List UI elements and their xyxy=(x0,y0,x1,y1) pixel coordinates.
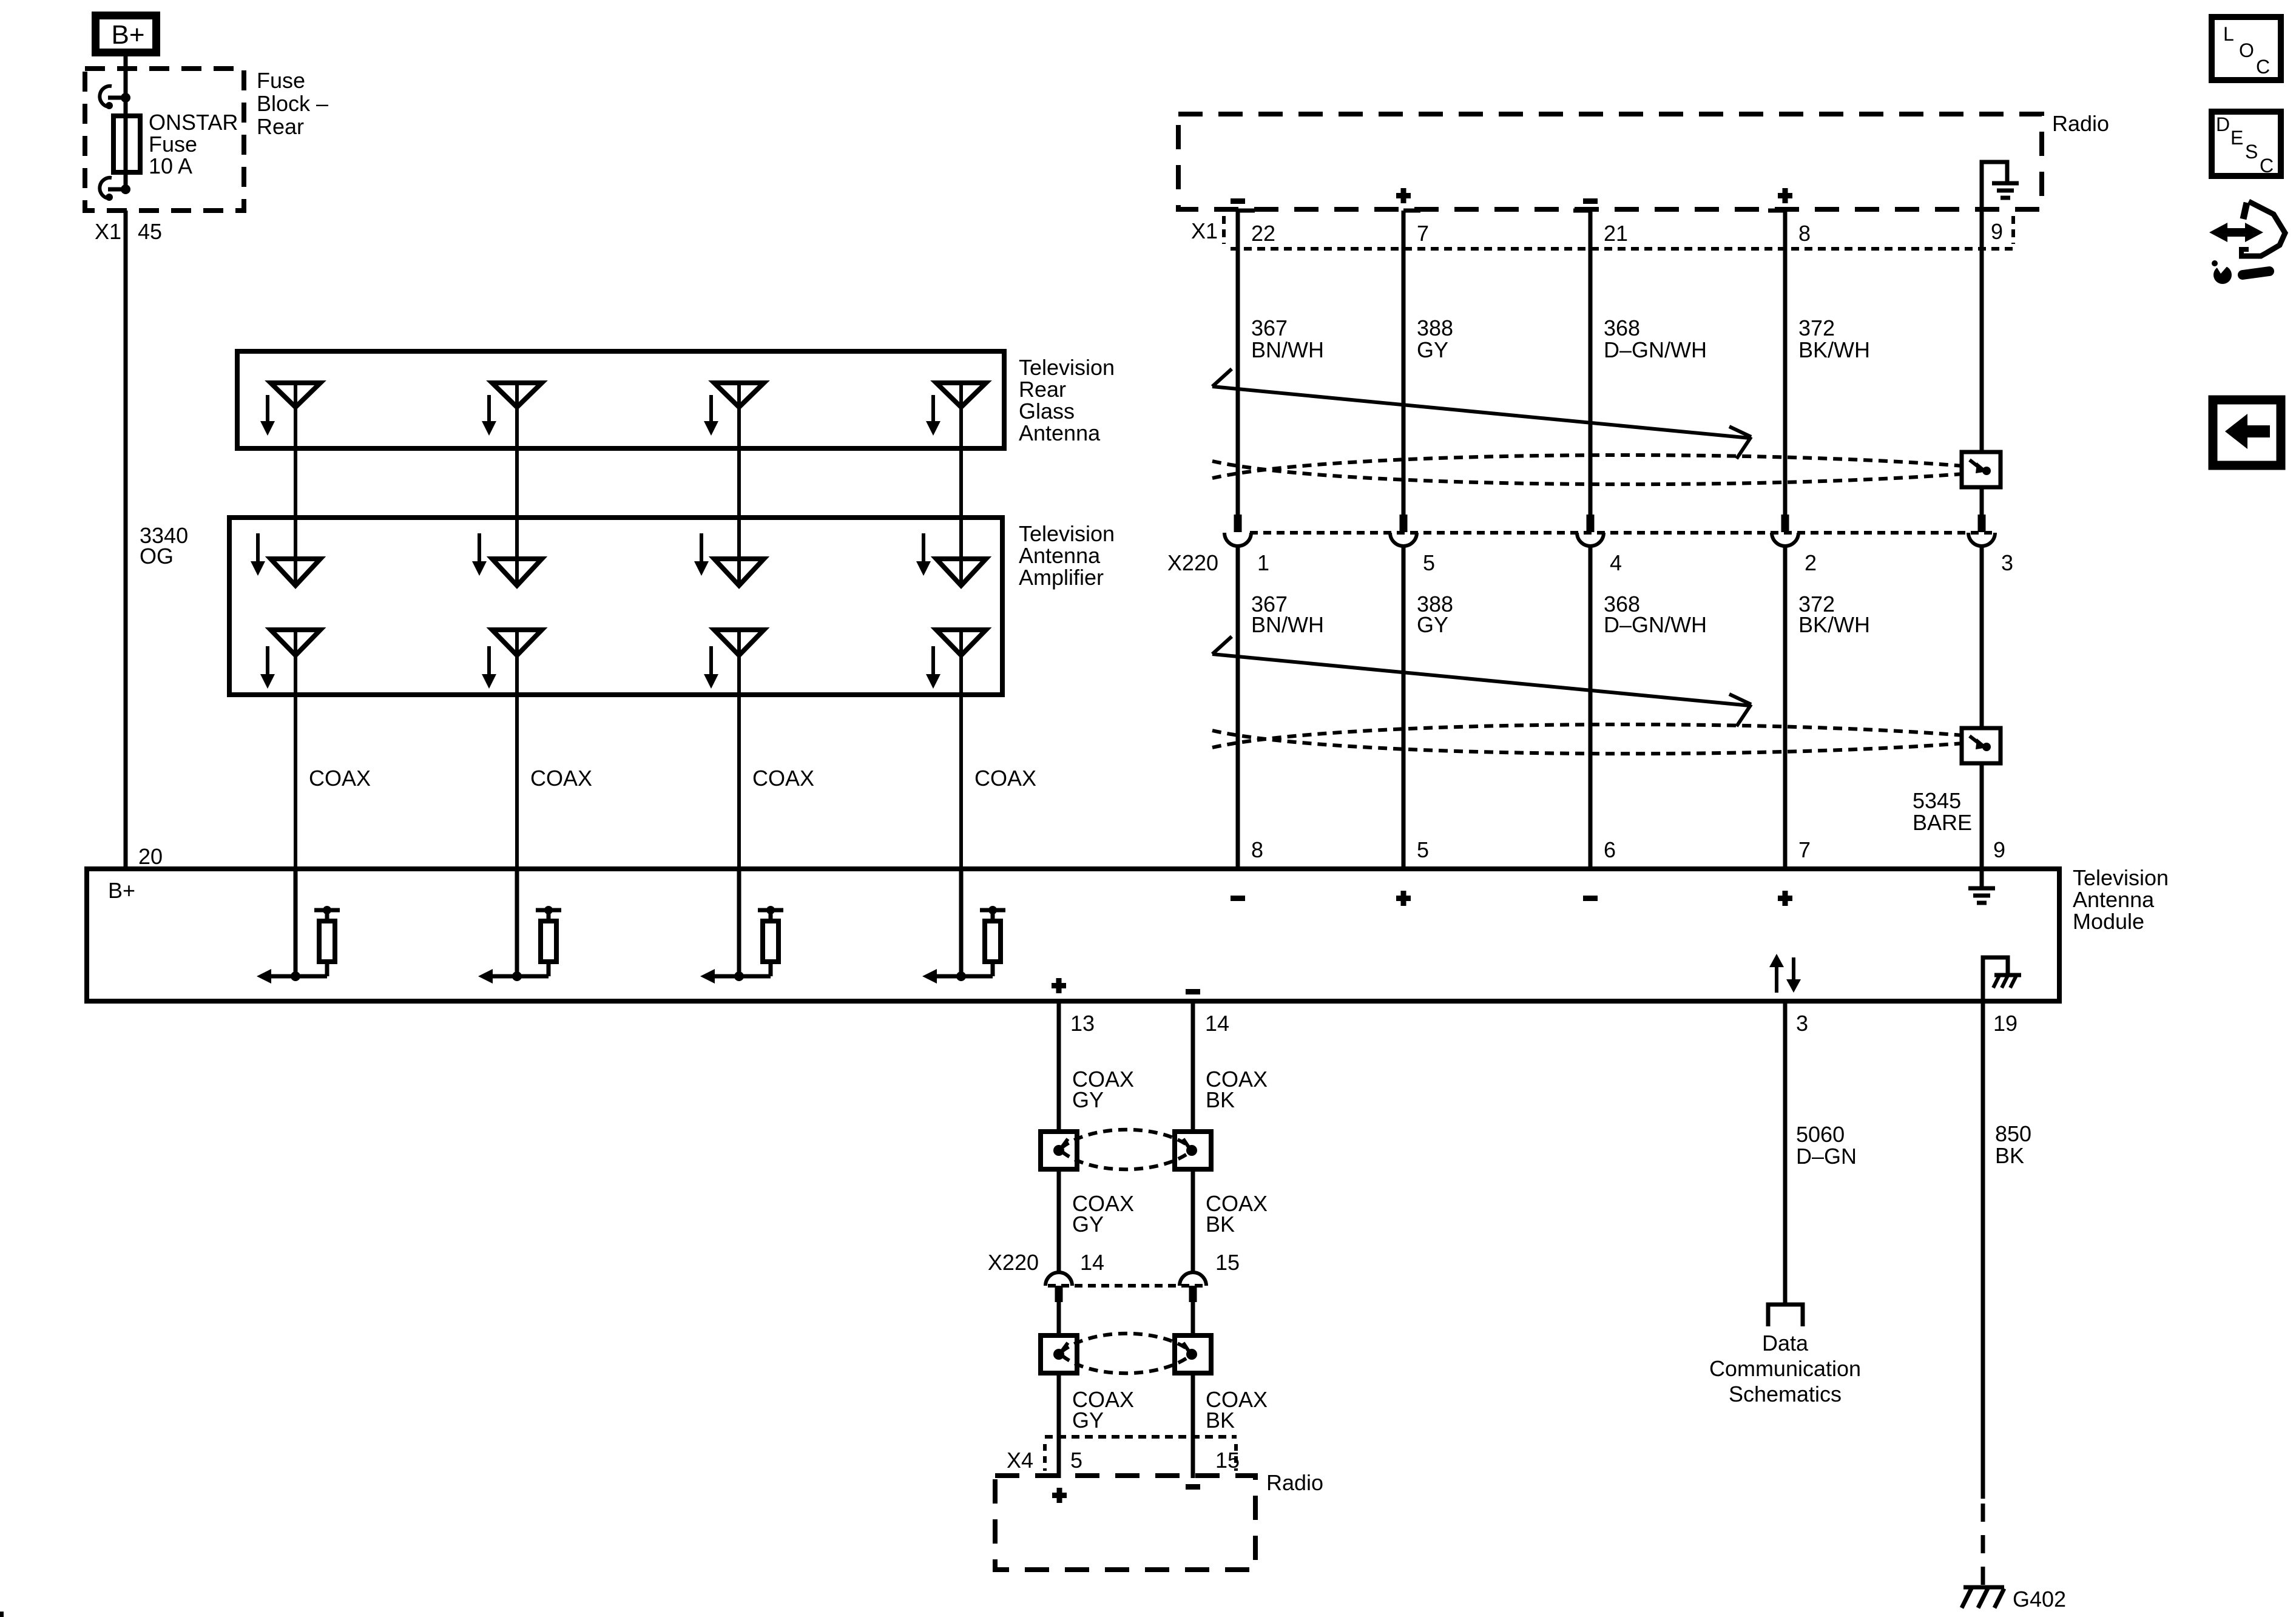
svg-text:6: 6 xyxy=(1604,837,1616,862)
wire circuit 372 BK/WH (X220 to module) xyxy=(1783,546,1788,869)
svg-text:Radio: Radio xyxy=(1266,1470,1323,1495)
wire circuit 368 D-GN/WH (X220 to module) xyxy=(1589,546,1593,869)
wire 3340 OG to module pin 20 xyxy=(124,211,128,869)
wire 5345 BARE drain (radio to X220) xyxy=(1980,209,1984,515)
television antenna amplifier box xyxy=(229,518,1002,695)
svg-text:OG: OG xyxy=(140,544,174,569)
svg-text:14: 14 xyxy=(1080,1250,1104,1275)
label ONSTAR Fuse 10 A xyxy=(149,110,238,178)
svg-text:368: 368 xyxy=(1604,316,1640,340)
label COAX GY (first) xyxy=(1072,1067,1134,1112)
svg-text:Fuse: Fuse xyxy=(257,68,305,93)
label Television Rear Glass Antenna xyxy=(1019,355,1115,445)
label Data Communication Schematics xyxy=(1709,1331,1861,1406)
wire COAX GY (module pin 13 to shield connector) xyxy=(1057,1001,1061,1272)
svg-text:3: 3 xyxy=(1796,1011,1808,1036)
svg-text:BK: BK xyxy=(1206,1408,1235,1433)
svg-text:5: 5 xyxy=(1423,550,1435,575)
bidirectional data arrows at module pin 3 xyxy=(1769,954,1801,993)
svg-text:15: 15 xyxy=(1215,1448,1240,1473)
svg-text:9: 9 xyxy=(1991,219,2003,244)
twisted pair ellipse lower (shield) xyxy=(1212,724,1978,754)
svg-text:Glass: Glass xyxy=(1019,399,1075,424)
antenna element A2 (rear glass) xyxy=(482,383,542,586)
svg-text:Communication: Communication xyxy=(1709,1356,1861,1381)
minus sign at radio pin 15 xyxy=(1186,1484,1200,1490)
svg-text:BN/WH: BN/WH xyxy=(1251,337,1324,362)
polarity sign minus at module pin 8 xyxy=(1231,896,1245,901)
label 3340 OG xyxy=(140,523,188,569)
radio pin 8 stub xyxy=(1768,209,1785,213)
fuse clip top xyxy=(100,86,130,109)
svg-text:X220: X220 xyxy=(1167,550,1218,575)
shield termination box upper xyxy=(1962,452,2001,487)
polarity sign plus at module pin 5 xyxy=(1396,891,1411,906)
svg-text:10 A: 10 A xyxy=(149,154,192,178)
svg-text:GY: GY xyxy=(1072,1212,1104,1237)
wire circuit 368 D-GN/WH (radio to X220) xyxy=(1589,211,1593,515)
shield link ellipse upper xyxy=(1053,1130,1197,1170)
svg-text:13: 13 xyxy=(1070,1011,1095,1036)
radio dashed box xyxy=(1178,114,2042,209)
svg-text:GY: GY xyxy=(1072,1087,1104,1112)
connector label X1 pin 45 xyxy=(95,219,162,244)
connector X220 lower dashed line xyxy=(1048,1284,1207,1288)
svg-text:2: 2 xyxy=(1805,550,1817,575)
svg-text:L: L xyxy=(2223,23,2234,45)
label COAX GY (second) xyxy=(1072,1191,1134,1237)
svg-text:B+: B+ xyxy=(108,878,135,903)
antenna element A1 (rear glass) xyxy=(260,383,320,586)
svg-text:15: 15 xyxy=(1215,1250,1240,1275)
fuse block rear dashed box xyxy=(85,69,244,211)
connector X220 terminal pin 14 xyxy=(1045,1272,1072,1302)
off-page connector to data communication schematics xyxy=(1768,1305,1803,1326)
wire label 5060 D-GN xyxy=(1796,1122,1857,1169)
chassis ground G402 xyxy=(1962,1587,2004,1608)
svg-text:COAX: COAX xyxy=(309,766,371,791)
radio pin 21 stub xyxy=(1573,209,1590,213)
wire COAX BK (X4 to radio) xyxy=(1191,1437,1195,1478)
shield splice box right lower xyxy=(1175,1335,1211,1373)
svg-text:COAX: COAX xyxy=(530,766,592,791)
svg-text:COAX: COAX xyxy=(752,766,814,791)
polarity sign plus at radio pin 7 xyxy=(1396,188,1411,203)
svg-text:Antenna: Antenna xyxy=(2073,887,2155,912)
label Television Antenna Module xyxy=(2073,865,2169,934)
svg-text:O: O xyxy=(2239,39,2254,61)
shield termination box lower xyxy=(1962,728,2001,763)
svg-text:5345: 5345 xyxy=(1913,788,1961,813)
svg-text:4: 4 xyxy=(1610,550,1622,575)
svg-text:X220: X220 xyxy=(988,1250,1039,1275)
icon LOC box xyxy=(2212,17,2281,80)
svg-text:5: 5 xyxy=(1417,837,1429,862)
shield splice box left upper xyxy=(1041,1132,1077,1169)
wire label 367 BN/WH lower xyxy=(1251,592,1324,637)
shield splice box right upper xyxy=(1175,1132,1211,1169)
wire circuit 372 BK/WH (radio to X220) xyxy=(1783,211,1788,515)
wire label 5345 BARE xyxy=(1913,788,1972,835)
svg-text:Fuse: Fuse xyxy=(149,132,197,157)
wire circuit 367 BN/WH (X220 to module) xyxy=(1236,546,1240,869)
wire 5345 BARE drain (X220 to module) xyxy=(1980,546,1984,869)
amplifier output antenna symbol C3 xyxy=(704,630,764,869)
svg-text:E: E xyxy=(2230,127,2243,149)
svg-text:9: 9 xyxy=(1993,837,2005,862)
icon back arrow box xyxy=(2213,400,2281,465)
svg-text:19: 19 xyxy=(1993,1011,2017,1036)
polarity sign minus at module pin 6 xyxy=(1583,896,1598,901)
wire label 388 GY lower xyxy=(1417,592,1453,637)
svg-text:BARE: BARE xyxy=(1913,810,1972,835)
svg-text:850: 850 xyxy=(1995,1121,2031,1146)
connector X220 terminal pin 5 xyxy=(1390,515,1417,546)
svg-text:Television: Television xyxy=(1019,521,1115,546)
svg-text:C: C xyxy=(2256,56,2270,78)
svg-text:Rear: Rear xyxy=(257,114,304,139)
wire B+ to fuse block xyxy=(124,56,128,98)
module input termination network 2 (arrow and resistor) xyxy=(478,869,561,984)
label X1 (radio connector) xyxy=(1191,216,2013,244)
antenna element A3 (rear glass) xyxy=(704,383,764,586)
amplifier input antenna symbol B4 xyxy=(916,533,986,586)
twisted pair ellipse upper (shield) xyxy=(1212,455,1978,484)
svg-text:D–GN/WH: D–GN/WH xyxy=(1604,612,1707,637)
svg-text:D: D xyxy=(2216,113,2230,135)
svg-text:BK/WH: BK/WH xyxy=(1798,612,1870,637)
icon DESC box xyxy=(2212,112,2281,177)
svg-text:B+: B+ xyxy=(111,20,144,50)
svg-text:GY: GY xyxy=(1417,612,1448,637)
fuse ONSTAR 10A element xyxy=(113,116,140,172)
label COAX BK (first) xyxy=(1206,1067,1268,1112)
connector X220 terminal pin 15 xyxy=(1180,1272,1206,1302)
svg-text:BK: BK xyxy=(1206,1212,1235,1237)
amplifier output antenna symbol C2 xyxy=(482,630,542,869)
svg-text:Television: Television xyxy=(1019,355,1115,380)
module internal chassis ground at pin 19 xyxy=(1983,957,2021,1001)
television antenna module box xyxy=(87,869,2059,1001)
wire label 368 D-GN/WH lower xyxy=(1604,592,1707,637)
television rear glass antenna box xyxy=(237,351,1004,448)
svg-text:45: 45 xyxy=(138,219,162,244)
connector X220 dashed line xyxy=(1250,531,1996,535)
label Fuse Block - Rear xyxy=(257,68,328,139)
radio pin 22 stub xyxy=(1238,209,1255,213)
svg-text:388: 388 xyxy=(1417,316,1453,340)
radio internal ground at pin 9 xyxy=(1982,162,2019,209)
svg-text:8: 8 xyxy=(1251,837,1263,862)
svg-text:Module: Module xyxy=(2073,909,2144,934)
module input termination network 1 (arrow and resistor) xyxy=(257,869,340,984)
svg-text:367: 367 xyxy=(1251,316,1288,340)
wire COAX BK (module pin 14 to shield connector) xyxy=(1191,1001,1195,1272)
wire label 850 BK xyxy=(1995,1121,2031,1168)
svg-text:Radio: Radio xyxy=(2052,111,2109,136)
fuse clip bottom xyxy=(100,178,130,201)
amplifier input antenna symbol B2 xyxy=(472,533,542,586)
svg-text:5060: 5060 xyxy=(1796,1122,1845,1147)
icon two-way communication with wrench xyxy=(2209,201,2285,284)
wire label 388 GY upper xyxy=(1417,316,1453,362)
polarity sign minus at radio pin 21 xyxy=(1583,198,1598,204)
svg-text:Antenna: Antenna xyxy=(1019,420,1101,445)
twisted-wire arrow lower xyxy=(1212,636,1751,726)
svg-text:ONSTAR: ONSTAR xyxy=(149,110,238,135)
svg-text:Data: Data xyxy=(1762,1331,1809,1355)
label COAX GY (third) xyxy=(1072,1387,1134,1433)
radio pin 7 stub xyxy=(1403,209,1420,213)
svg-text:Television: Television xyxy=(2073,865,2169,890)
connector X4 dashed line xyxy=(1045,1437,1237,1471)
polarity sign plus at radio pin 8 xyxy=(1778,188,1792,203)
svg-text:22: 22 xyxy=(1251,221,1275,246)
svg-text:20: 20 xyxy=(138,844,163,869)
shield link ellipse lower xyxy=(1053,1334,1197,1374)
label COAX BK (second) xyxy=(1206,1191,1268,1237)
wire label 367 BN/WH upper xyxy=(1251,316,1324,362)
label COAX BK (third) xyxy=(1206,1387,1268,1433)
svg-text:BK/WH: BK/WH xyxy=(1798,337,1870,362)
svg-text:Schematics: Schematics xyxy=(1729,1382,1842,1406)
module internal ground at pin 9 xyxy=(1968,869,1995,903)
wire label 368 D-GN/WH upper xyxy=(1604,316,1707,362)
label Television Antenna Amplifier xyxy=(1019,521,1115,590)
wire label 372 BK/WH lower xyxy=(1798,592,1870,637)
connector X220 terminal pin 4 xyxy=(1577,515,1604,546)
page mark xyxy=(0,1612,4,1617)
svg-text:BK: BK xyxy=(1206,1087,1235,1112)
svg-text:GY: GY xyxy=(1417,337,1448,362)
amplifier output antenna symbol C1 xyxy=(260,630,320,869)
svg-text:D–GN: D–GN xyxy=(1796,1144,1857,1169)
svg-text:D–GN/WH: D–GN/WH xyxy=(1604,337,1707,362)
plus sign at radio pin 5 xyxy=(1052,1488,1067,1503)
wire COAX GY (X4 to radio) xyxy=(1057,1437,1061,1478)
minus sign at module pin 14 xyxy=(1186,989,1200,994)
amplifier output antenna symbol C4 xyxy=(926,630,986,869)
svg-text:S: S xyxy=(2245,141,2258,163)
svg-text:Block –: Block – xyxy=(257,91,328,116)
power symbol B+ xyxy=(96,16,157,53)
svg-text:G402: G402 xyxy=(2013,1587,2066,1612)
connector X220 terminal pin 2 xyxy=(1772,515,1798,546)
antenna element A4 (rear glass) xyxy=(926,383,986,586)
wire label 372 BK/WH upper xyxy=(1798,316,1870,362)
svg-text:7: 7 xyxy=(1798,837,1811,862)
wire circuit 367 BN/WH (radio to X220) xyxy=(1236,211,1240,515)
svg-text:8: 8 xyxy=(1798,221,1811,246)
svg-text:X1: X1 xyxy=(1191,218,1218,243)
svg-text:Amplifier: Amplifier xyxy=(1019,565,1104,590)
svg-text:Rear: Rear xyxy=(1019,377,1066,402)
svg-text:14: 14 xyxy=(1205,1011,1229,1036)
svg-text:X4: X4 xyxy=(1007,1448,1033,1473)
svg-text:3: 3 xyxy=(2001,550,2013,575)
wire through fuse xyxy=(124,98,128,189)
connector X220 terminal pin 3 xyxy=(1968,515,1995,546)
wire 5060 D-GN (module pin 3 to data link) xyxy=(1783,1001,1788,1305)
polarity sign plus at module pin 7 xyxy=(1778,891,1792,906)
svg-text:Antenna: Antenna xyxy=(1019,543,1101,568)
svg-text:21: 21 xyxy=(1604,221,1628,246)
module input termination network 4 (arrow and resistor) xyxy=(922,869,1005,984)
connector X220 terminal pin 1 xyxy=(1224,515,1251,546)
svg-text:372: 372 xyxy=(1798,316,1835,340)
amplifier input antenna symbol B1 xyxy=(251,533,320,586)
svg-text:BN/WH: BN/WH xyxy=(1251,612,1324,637)
svg-text:COAX: COAX xyxy=(974,766,1036,791)
svg-text:7: 7 xyxy=(1417,221,1429,246)
wire circuit 388 GY (X220 to module) xyxy=(1402,546,1406,869)
radio connector X1 dotted line xyxy=(1231,247,2014,251)
amplifier input antenna symbol B3 xyxy=(694,533,764,586)
module input termination network 3 (arrow and resistor) xyxy=(700,869,783,984)
plus sign at module pin 13 xyxy=(1052,978,1066,993)
radio dashed box bottom xyxy=(995,1476,1255,1570)
wire COAX GY (X220 to lower shield connector) xyxy=(1057,1302,1061,1437)
svg-text:BK: BK xyxy=(1995,1143,2024,1168)
dashed wire continuation to G402 xyxy=(1981,1504,1985,1585)
polarity sign minus at radio pin 22 xyxy=(1231,198,1245,204)
wire COAX BK (X220 to lower shield connector) xyxy=(1191,1302,1195,1437)
svg-text:1: 1 xyxy=(1257,550,1269,575)
svg-text:X1: X1 xyxy=(95,219,121,244)
wire circuit 388 GY (radio to X220) xyxy=(1402,211,1406,515)
svg-text:GY: GY xyxy=(1072,1408,1104,1433)
shield splice box left lower xyxy=(1041,1335,1077,1373)
twisted-wire arrow upper xyxy=(1212,369,1751,459)
svg-text:5: 5 xyxy=(1070,1448,1082,1473)
wire 850 BK (module pin 19 to G402) xyxy=(1981,1001,1985,1499)
svg-text:C: C xyxy=(2260,155,2274,177)
